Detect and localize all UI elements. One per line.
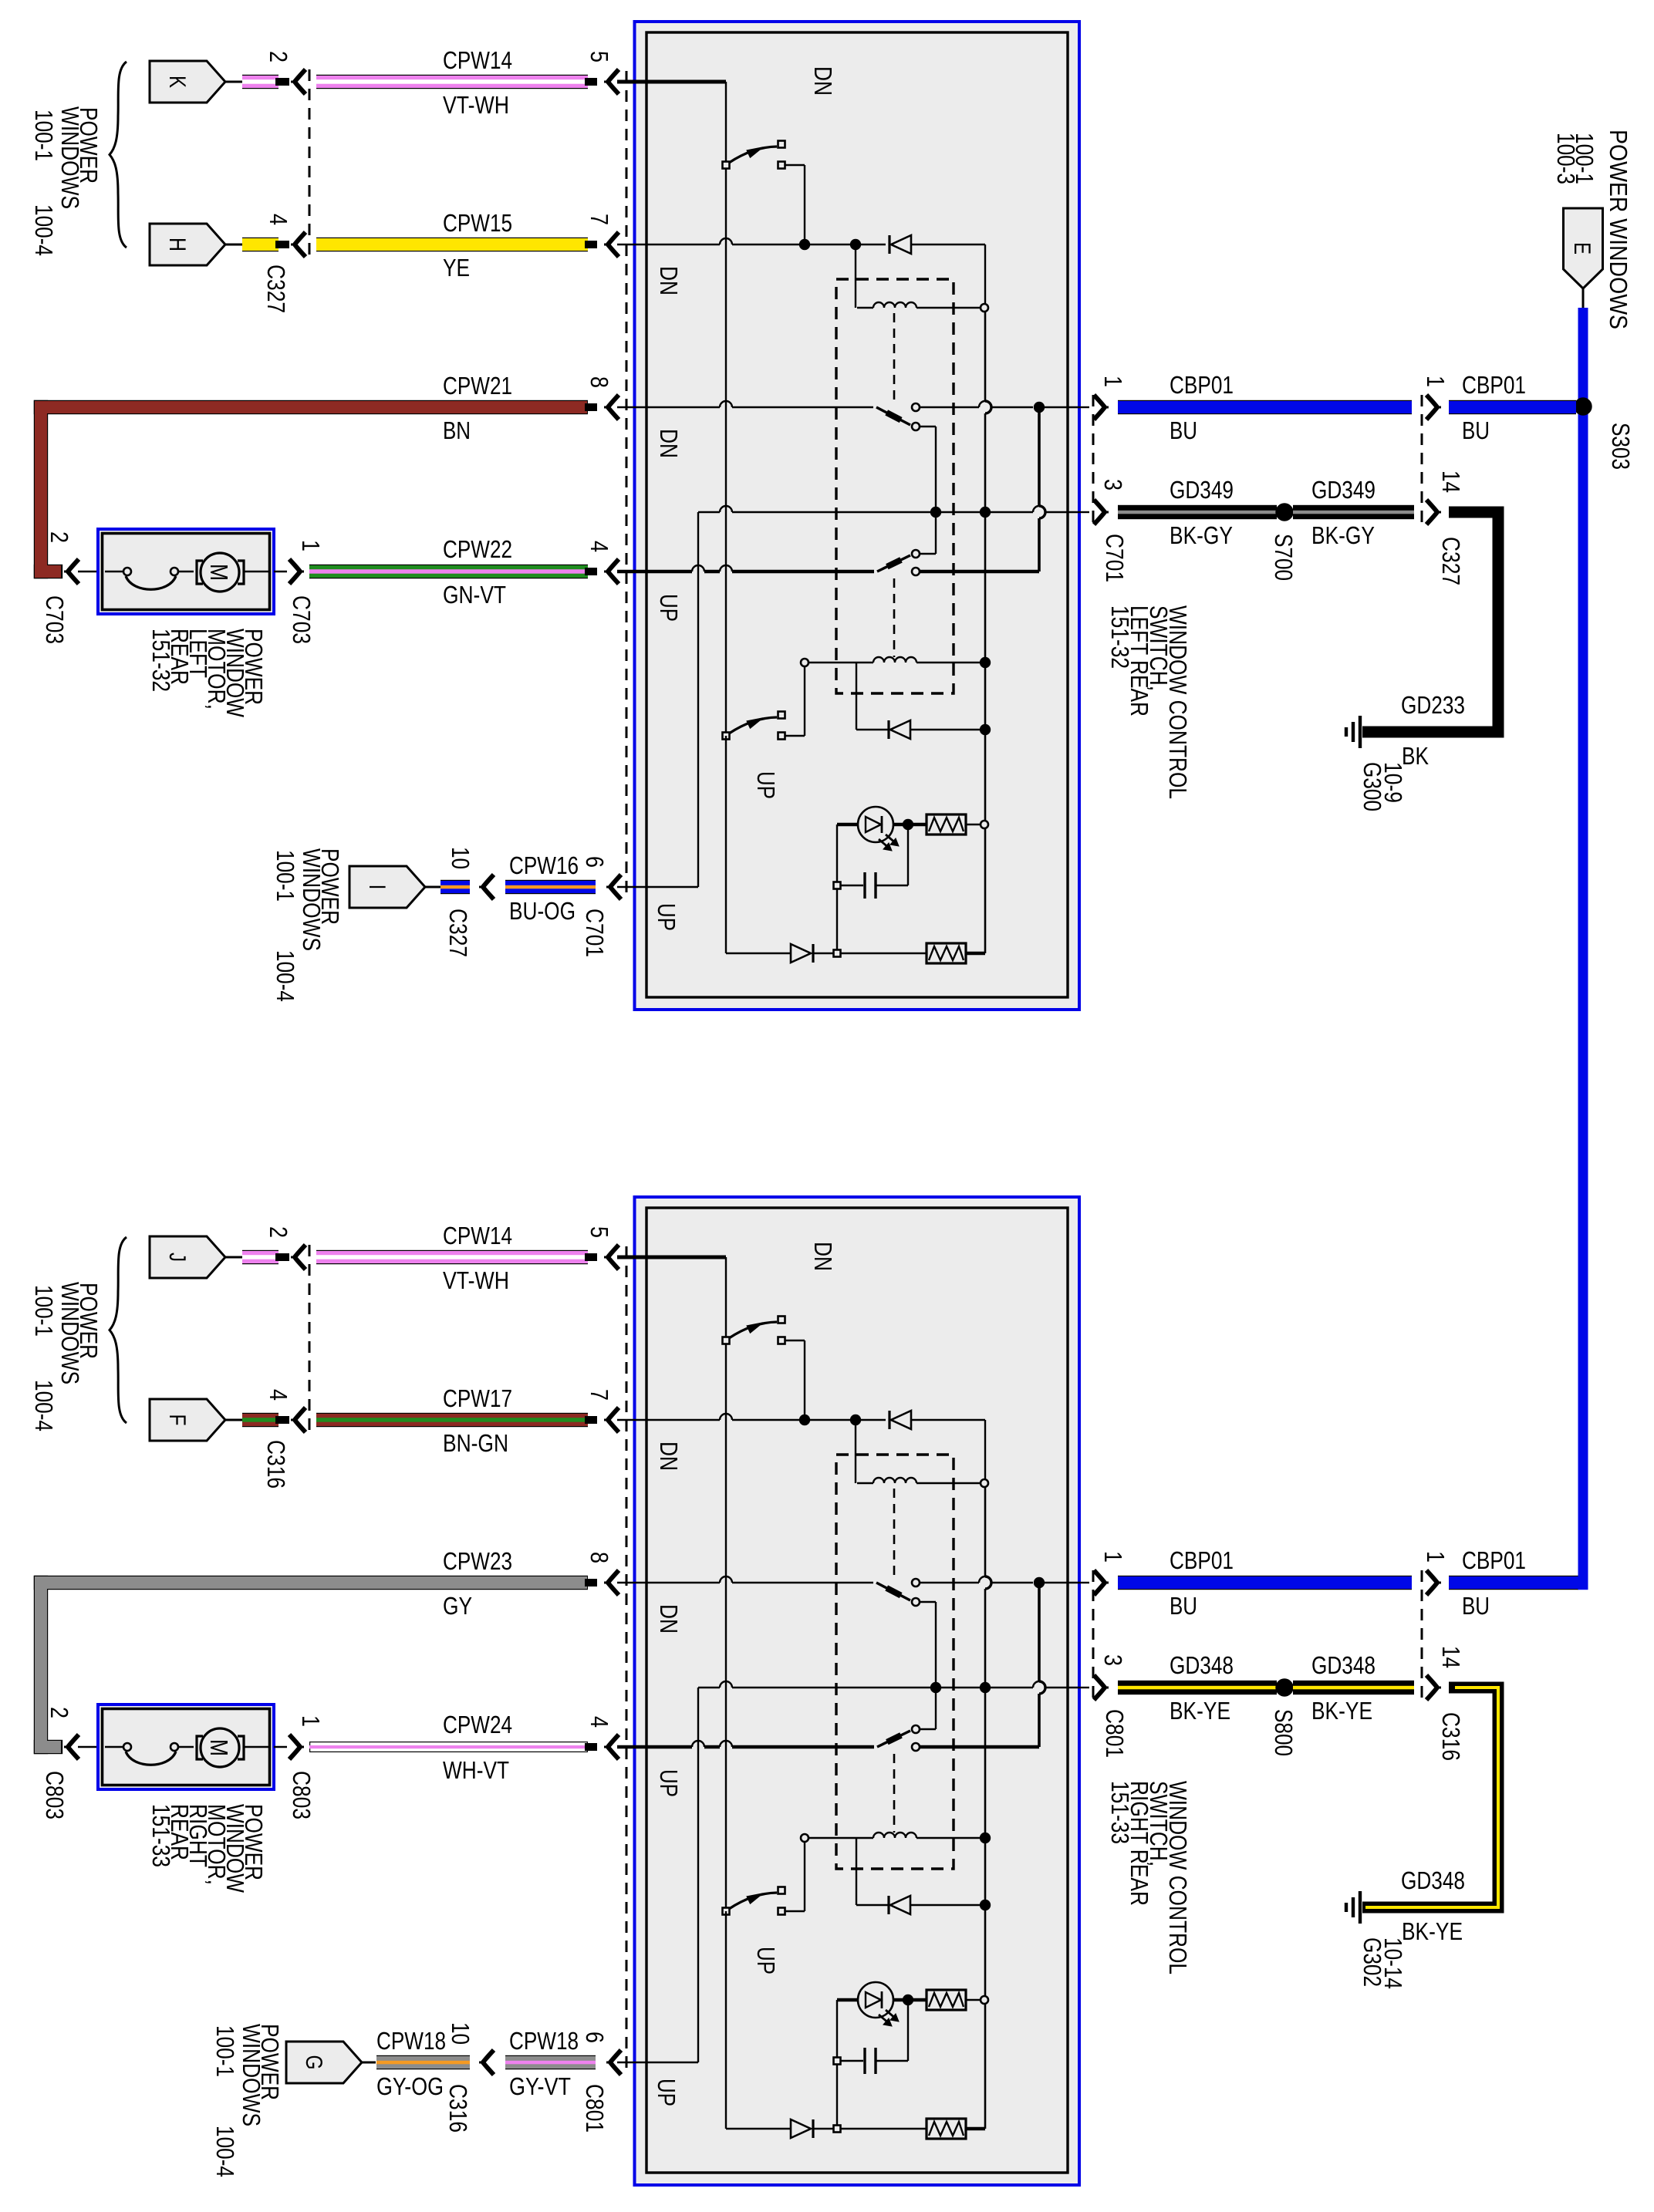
- label GD348 right: [1311, 1651, 1376, 1679]
- svg-text:CPW14: CPW14: [443, 46, 512, 74]
- pin 7 label bottom: [586, 1389, 613, 1401]
- svg-text:3: 3: [1099, 1654, 1127, 1666]
- wire CBP01 BU left segment: [1118, 400, 1412, 414]
- svg-text:CBP01: CBP01: [1170, 1546, 1234, 1574]
- label BK-YE right: [1311, 1697, 1372, 1725]
- inline arrow at motor C703 left: [64, 559, 98, 584]
- pin 4 label at C316: [265, 1389, 292, 1401]
- svg-text:DN: DN: [809, 66, 837, 96]
- label VT-WH bottom: [443, 1266, 509, 1294]
- label S303: [1607, 423, 1635, 470]
- svg-text:10: 10: [447, 2022, 474, 2045]
- wire CPW15 YE main segment: [316, 238, 597, 251]
- label BK-YE ground: [1402, 1917, 1463, 1945]
- label GY: [443, 1592, 472, 1620]
- diode D1 in switch left rear: [889, 235, 985, 304]
- svg-text:F: F: [164, 1415, 190, 1426]
- svg-text:WH-VT: WH-VT: [443, 1756, 509, 1784]
- label BK-YE left: [1170, 1697, 1230, 1725]
- pin 14 label: [1437, 470, 1465, 493]
- svg-text:BU: BU: [1462, 416, 1490, 444]
- svg-text:C327: C327: [1437, 537, 1465, 585]
- label C316 under G row arrow: [444, 2084, 472, 2133]
- pin 6 label into switch bottom: [581, 2032, 609, 2043]
- svg-text:100-4: 100-4: [211, 2126, 239, 2177]
- svg-text:8: 8: [586, 1552, 613, 1563]
- svg-text:BN: BN: [443, 416, 471, 444]
- splice S303: [1575, 399, 1592, 415]
- svg-text:C803: C803: [288, 1771, 316, 1819]
- svg-text:BK-YE: BK-YE: [1170, 1697, 1230, 1725]
- svg-text:GY: GY: [443, 1592, 472, 1620]
- pin 1 label at motor right rear right: [297, 1715, 325, 1727]
- wire CPW15 YE short segment at H: [242, 238, 289, 251]
- diode D2 in switch right rear: [856, 1896, 990, 1914]
- svg-text:1: 1: [297, 540, 325, 551]
- inline arrow at motor C703 right: [274, 559, 304, 584]
- label GD233: [1401, 691, 1465, 719]
- pin 8 label: [586, 376, 613, 388]
- label CPW18 GY-OG: [376, 2027, 446, 2100]
- wire CPW14 VT-WH short segment at J: [242, 1250, 289, 1264]
- label WH-VT: [443, 1756, 509, 1784]
- inline connector arrow C316 J row: [291, 1245, 305, 1270]
- svg-text:CPW18: CPW18: [509, 2027, 579, 2055]
- svg-text:I: I: [364, 885, 390, 890]
- brace power windows bottom: [110, 1237, 127, 1423]
- relay coil UP in switch right rear: [801, 1754, 990, 1905]
- label GD348 left: [1170, 1651, 1234, 1679]
- wire CPW22 GN-VT: [309, 565, 597, 578]
- pin 1 label right of switch: [1099, 376, 1127, 387]
- pin 1 label right of switch bottom: [1099, 1551, 1127, 1563]
- wire pin5 DN feed into switch left rear: [617, 82, 726, 736]
- label CPW16: [509, 851, 579, 879]
- diode D2 in switch left rear: [856, 720, 990, 739]
- connector G: [286, 2042, 376, 2083]
- svg-text:UP: UP: [653, 2079, 680, 2106]
- svg-text:151-32: 151-32: [1106, 605, 1134, 669]
- label CPW17: [443, 1384, 512, 1412]
- LED indicator in switch right rear: [837, 1982, 927, 2026]
- svg-text:CPW22: CPW22: [443, 535, 512, 563]
- svg-text:BU: BU: [1170, 416, 1197, 444]
- svg-text:100-1: 100-1: [211, 2025, 239, 2077]
- pin 4 label into switch: [586, 541, 613, 552]
- inline arrow into switch pin 4: [604, 559, 619, 584]
- connector E: [1564, 208, 1603, 308]
- svg-text:GY-OG: GY-OG: [376, 2072, 444, 2100]
- label C327 under I row arrow: [444, 909, 472, 957]
- relay contact DN in switch right rear: [617, 1576, 1079, 1688]
- svg-text:100-1: 100-1: [272, 850, 299, 902]
- label C701 under pin3 arrow: [1101, 534, 1129, 582]
- svg-text:UP: UP: [752, 1947, 780, 1974]
- label DN pin7 in switch left rear: [655, 266, 683, 295]
- wire CPW23 GY: [34, 1576, 597, 1754]
- svg-text:GD348: GD348: [1170, 1651, 1234, 1679]
- svg-text:10: 10: [447, 847, 474, 869]
- svg-text:C803: C803: [41, 1771, 69, 1819]
- svg-text:WINDOWS: WINDOWS: [56, 106, 84, 209]
- power window motor left rear: [98, 529, 274, 614]
- label CBP01 left: [1170, 371, 1234, 399]
- pin 10 label at C316 G row: [447, 2022, 474, 2045]
- label C703 right: [288, 595, 316, 644]
- pin 2 label at motor left rear: [46, 531, 73, 543]
- pin 8 label bottom: [586, 1552, 613, 1563]
- svg-text:GN-VT: GN-VT: [443, 581, 506, 609]
- svg-text:C701: C701: [581, 909, 609, 957]
- svg-text:CBP01: CBP01: [1462, 1546, 1526, 1574]
- pin 5 label bottom: [586, 1226, 613, 1238]
- label POWER WINDOWS 100-1 100-4 top left: [30, 106, 103, 256]
- label UP switch in switch right rear: [752, 1947, 780, 1974]
- svg-text:1: 1: [1422, 376, 1450, 387]
- label POWER WINDOWS 100-1 100-4 at connector I: [272, 848, 344, 1002]
- label power window motor left rear: [147, 629, 268, 718]
- inline arrow into switch pin 7: [604, 232, 619, 257]
- svg-text:6: 6: [581, 2032, 609, 2043]
- svg-text:7: 7: [586, 214, 613, 225]
- svg-text:C316: C316: [1437, 1712, 1465, 1761]
- inline arrow into switch pin 5 bottom: [604, 1245, 619, 1270]
- svg-text:10-14: 10-14: [1379, 1937, 1407, 1989]
- splice S700: [1277, 504, 1293, 521]
- svg-text:UP: UP: [653, 903, 680, 931]
- label CPW21: [443, 372, 512, 400]
- svg-text:1: 1: [1099, 1551, 1127, 1563]
- label C801 under pin6 arrow bottom: [581, 2084, 609, 2133]
- svg-text:H: H: [164, 238, 190, 251]
- connector C327 dashed line right: [1421, 395, 1423, 524]
- wire CBP01 BU left segment bottom: [1118, 1576, 1412, 1590]
- inline arrow into switch pin 8: [604, 395, 619, 420]
- diode D3 in switch right rear: [726, 1911, 927, 2138]
- wire CPW14 VT-WH main segment bottom: [316, 1250, 597, 1264]
- resistor R1 in switch right rear: [927, 1990, 988, 2010]
- svg-text:S800: S800: [1270, 1709, 1298, 1756]
- pin 1 label at C327 right: [1422, 376, 1450, 387]
- inline arrow C316 CBP01 row: [1426, 1570, 1441, 1595]
- resistor R1 in switch left rear: [927, 814, 988, 835]
- relay dashed box in switch right rear: [836, 1455, 954, 1869]
- pin 6 label into switch: [581, 856, 609, 868]
- connector C316 dashed line right: [1421, 1570, 1423, 1700]
- label CPW14 bottom: [443, 1222, 512, 1249]
- label C701 under pin6 arrow: [581, 909, 609, 957]
- relay contact UP in switch right rear: [617, 1688, 1039, 1751]
- pin 10 label at C327: [447, 847, 474, 869]
- label UP switch in switch left rear: [752, 771, 780, 799]
- label GD349 right: [1311, 476, 1376, 504]
- window control switch right rear outer box: [635, 1197, 1080, 2185]
- diode D3 in switch left rear: [726, 736, 927, 963]
- label C703 left: [41, 595, 69, 644]
- label BU left bottom: [1170, 1592, 1197, 1620]
- label DN pin8 in switch right rear: [655, 1604, 683, 1634]
- relay coil UP in switch left rear: [801, 578, 990, 730]
- label CPW24: [443, 1711, 512, 1738]
- manual switch DN in switch left rear: [723, 141, 805, 245]
- svg-text:WINDOWS: WINDOWS: [238, 2024, 265, 2126]
- label window control switch left rear: [1106, 605, 1192, 799]
- inline arrow into switch pin 6 bottom: [606, 2050, 621, 2075]
- label CPW22: [443, 535, 512, 563]
- wire pin7 DN row in switch left rear: [617, 238, 886, 308]
- svg-text:3: 3: [1099, 479, 1127, 491]
- svg-text:BU: BU: [1462, 1592, 1490, 1620]
- capacitor in switch left rear: [834, 824, 909, 953]
- svg-text:DN: DN: [655, 1604, 683, 1634]
- inline arrow out of switch pin 3 GD348: [1079, 1675, 1109, 1700]
- relay contact UP in switch left rear: [617, 512, 1039, 575]
- connector C316 dashed line bottom: [309, 1245, 311, 1431]
- vertical bus right in switch left rear: [985, 312, 991, 953]
- svg-text:2: 2: [46, 1707, 73, 1718]
- inline arrow into switch pin 5: [604, 69, 619, 94]
- wire GD348 BK-YE right segment: [1293, 1681, 1414, 1694]
- label DN pin7 in switch right rear: [655, 1442, 683, 1471]
- wire CPW24 WH-VT: [309, 1742, 597, 1752]
- svg-text:5: 5: [586, 1226, 613, 1238]
- label BN: [443, 416, 471, 444]
- svg-text:100-1: 100-1: [30, 1285, 58, 1337]
- svg-text:CPW24: CPW24: [443, 1711, 512, 1738]
- label CPW15: [443, 209, 512, 237]
- svg-text:M: M: [205, 1739, 233, 1756]
- inline arrow C316 G row: [479, 2050, 494, 2075]
- manual switch UP in switch left rear: [723, 666, 805, 740]
- svg-text:GY-VT: GY-VT: [509, 2072, 571, 2100]
- label BU right bottom: [1462, 1592, 1490, 1620]
- label POWER WINDOWS 100-1 100-4 at connector G: [211, 2024, 284, 2177]
- inline arrow into switch pin 7 bottom: [604, 1408, 619, 1432]
- diode D1 in switch right rear: [889, 1411, 985, 1479]
- pin 5 label: [586, 51, 613, 62]
- svg-text:K: K: [164, 76, 190, 88]
- svg-text:GD233: GD233: [1401, 691, 1465, 719]
- svg-text:2: 2: [46, 531, 73, 543]
- wire pin7 DN row in switch right rear: [617, 1414, 886, 1483]
- svg-text:WINDOWS: WINDOWS: [56, 1282, 84, 1384]
- svg-text:151-32: 151-32: [147, 629, 175, 692]
- connector J: [150, 1236, 242, 1278]
- label BN-GN: [443, 1429, 508, 1457]
- label GD348 ground: [1401, 1866, 1465, 1894]
- resistor R2 in switch left rear: [927, 943, 985, 963]
- pin 4 label at C327: [265, 214, 292, 225]
- connector C701 dashed line right: [1092, 395, 1095, 524]
- svg-text:151-33: 151-33: [147, 1804, 175, 1867]
- svg-text:UP: UP: [655, 594, 683, 622]
- svg-text:E: E: [1569, 242, 1595, 255]
- pin 2 label at C316: [265, 1226, 292, 1238]
- capacitor in switch right rear: [834, 2000, 909, 2129]
- label 100-1 100-3 top right: [1552, 133, 1598, 184]
- manual switch UP in switch right rear: [723, 1842, 805, 1915]
- svg-text:C701: C701: [1101, 534, 1129, 582]
- LED indicator in switch left rear: [837, 807, 927, 851]
- svg-text:10-9: 10-9: [1379, 762, 1407, 803]
- label BU right: [1462, 416, 1490, 444]
- wire CBP01 BU right segment bottom joins battery feed: [1449, 1576, 1588, 1590]
- label BK: [1402, 742, 1429, 770]
- brace power windows top: [110, 62, 127, 248]
- label YE: [443, 254, 470, 282]
- svg-text:CBP01: CBP01: [1170, 371, 1234, 399]
- svg-text:5: 5: [586, 51, 613, 62]
- label C803 right: [288, 1771, 316, 1819]
- label GN-VT: [443, 581, 506, 609]
- inline connector arrow C327 H row: [291, 232, 305, 257]
- relay dashed box in switch left rear: [836, 279, 954, 693]
- label BK-GY left: [1170, 521, 1233, 549]
- connector C327 dashed line top: [309, 69, 311, 255]
- svg-text:4: 4: [265, 214, 292, 225]
- svg-text:DN: DN: [809, 1242, 837, 1271]
- window control switch left rear outer box: [635, 22, 1080, 1010]
- label POWER WINDOWS 100-1 100-4 bottom left: [30, 1282, 103, 1431]
- label DN top in switch left rear: [809, 66, 837, 96]
- inline arrow out of switch pin 1 CBP01: [1079, 395, 1109, 420]
- label UP pin4 in switch left rear: [655, 594, 683, 622]
- svg-text:DN: DN: [655, 266, 683, 295]
- svg-text:100-1: 100-1: [30, 110, 58, 161]
- svg-text:C801: C801: [1101, 1709, 1129, 1758]
- label DN pin8 in switch left rear: [655, 429, 683, 458]
- ground G300: [1346, 716, 1360, 748]
- svg-text:BK-YE: BK-YE: [1402, 1917, 1463, 1945]
- svg-text:100-1: 100-1: [1571, 133, 1598, 184]
- connector dashed line C701 left of switch left rear: [626, 71, 628, 896]
- svg-text:BK-GY: BK-GY: [1170, 521, 1233, 549]
- label BU left: [1170, 416, 1197, 444]
- manual switch DN in switch right rear: [723, 1317, 805, 1421]
- svg-text:1: 1: [1099, 376, 1127, 387]
- wire CPW16 BU-OG short segment: [441, 880, 470, 894]
- label C316 under arrow: [262, 1440, 290, 1489]
- label C316 under pin14 arrow: [1437, 1712, 1465, 1761]
- svg-text:G: G: [301, 2055, 326, 2070]
- svg-text:J: J: [164, 1253, 190, 1262]
- svg-text:DN: DN: [655, 1442, 683, 1471]
- svg-text:GD349: GD349: [1311, 476, 1376, 504]
- svg-text:C327: C327: [444, 909, 472, 957]
- wire GD349 BK-GY right segment: [1293, 505, 1414, 519]
- label CBP01 right: [1462, 371, 1526, 399]
- svg-text:CPW17: CPW17: [443, 1384, 512, 1412]
- label C327 under pin14 arrow: [1437, 537, 1465, 585]
- wire CPW17 BN-GN short segment at F: [242, 1413, 289, 1427]
- svg-text:CPW21: CPW21: [443, 372, 512, 400]
- svg-text:4: 4: [265, 1389, 292, 1401]
- svg-text:CPW23: CPW23: [443, 1547, 512, 1575]
- ground G302: [1346, 1891, 1360, 1924]
- splice S800: [1277, 1680, 1293, 1696]
- pin 3 label right of switch bottom: [1099, 1654, 1127, 1666]
- pin 7 label: [586, 214, 613, 225]
- svg-text:CPW15: CPW15: [443, 209, 512, 237]
- label C327 under arrow: [262, 265, 290, 313]
- inline connector arrow C316 F row: [291, 1408, 305, 1432]
- svg-text:2: 2: [265, 51, 292, 62]
- wire CPW21 BN: [34, 400, 597, 578]
- svg-text:BU-OG: BU-OG: [509, 897, 576, 925]
- svg-text:100-4: 100-4: [272, 950, 299, 1002]
- wire CBP01 BU right segment: [1449, 400, 1576, 414]
- label UP pin6 in switch right rear: [653, 2079, 680, 2106]
- svg-text:C703: C703: [288, 595, 316, 644]
- svg-text:4: 4: [586, 1716, 613, 1728]
- connector H: [150, 224, 242, 265]
- relay coil DN in switch right rear: [857, 1478, 988, 1575]
- ground rail in switch left rear: [617, 506, 1079, 887]
- label BU-OG: [509, 897, 576, 925]
- wire battery feed BU vertical: [1578, 308, 1588, 1577]
- svg-text:CBP01: CBP01: [1462, 371, 1526, 399]
- svg-text:M: M: [205, 564, 233, 581]
- label BK-GY right: [1311, 521, 1375, 549]
- wire GD233 BK to ground: [1362, 512, 1498, 732]
- pin 2 label at motor right rear: [46, 1707, 73, 1718]
- pin 2 label at C327: [265, 51, 292, 62]
- label window control switch right rear: [1106, 1781, 1192, 1974]
- svg-text:UP: UP: [655, 1769, 683, 1797]
- inline arrow C327 GD349 row: [1426, 500, 1441, 524]
- svg-text:100-4: 100-4: [30, 204, 58, 256]
- svg-text:S303: S303: [1607, 423, 1635, 470]
- svg-text:VT-WH: VT-WH: [443, 1266, 509, 1294]
- pin 3 label right of switch: [1099, 479, 1127, 491]
- inline connector arrow C327 K row: [291, 69, 305, 94]
- svg-text:UP: UP: [752, 771, 780, 799]
- svg-text:BN-GN: BN-GN: [443, 1429, 508, 1457]
- label UP pin6 in switch left rear: [653, 903, 680, 931]
- connector K: [150, 61, 242, 103]
- relay coil DN in switch left rear: [857, 302, 988, 400]
- label UP pin4 in switch right rear: [655, 1769, 683, 1797]
- svg-text:100-4: 100-4: [30, 1380, 58, 1431]
- inline arrow into switch pin 8 bottom: [604, 1570, 619, 1595]
- label CPW18 GY-VT: [509, 2027, 579, 2100]
- svg-text:C703: C703: [41, 595, 69, 644]
- connector C801 dashed line right: [1092, 1570, 1095, 1700]
- inline arrow C316 GD348 row: [1426, 1675, 1441, 1700]
- svg-text:BK-GY: BK-GY: [1311, 521, 1375, 549]
- relay contact DN in switch left rear: [617, 401, 1079, 512]
- svg-text:GD349: GD349: [1170, 476, 1234, 504]
- svg-text:8: 8: [586, 376, 613, 388]
- svg-text:POWER WINDOWS: POWER WINDOWS: [1605, 130, 1632, 329]
- label S800: [1270, 1709, 1298, 1756]
- pin 1 label at motor right: [297, 540, 325, 551]
- connector F: [150, 1399, 242, 1441]
- wire pin5 DN feed into switch right rear: [617, 1257, 726, 1911]
- pin 14 label bottom: [1437, 1646, 1465, 1668]
- label CBP01 right bottom: [1462, 1546, 1526, 1574]
- label S700: [1270, 534, 1298, 581]
- wire GD348 BK-YE left segment: [1118, 1681, 1277, 1694]
- inline arrow into switch pin 6: [606, 875, 621, 899]
- label POWER WINDOWS top right: [1605, 130, 1632, 329]
- label C801 under pin3 arrow: [1101, 1709, 1129, 1758]
- inline arrow out of switch pin 1 CBP01 bottom: [1079, 1570, 1109, 1595]
- inline arrow C327 CBP01 row: [1426, 395, 1441, 420]
- svg-text:YE: YE: [443, 254, 470, 282]
- feed link vertical in switch left rear: [1039, 407, 1045, 572]
- pin 1 label at C316 right: [1422, 1551, 1450, 1563]
